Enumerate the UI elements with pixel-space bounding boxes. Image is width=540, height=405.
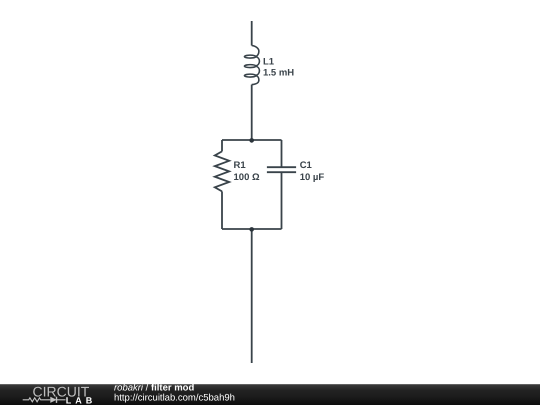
svg-text:1.5 mH: 1.5 mH xyxy=(263,68,294,79)
svg-text:http://circuitlab.com/c5bah9h: http://circuitlab.com/c5bah9h xyxy=(114,393,235,404)
svg-text:10 µF: 10 µF xyxy=(300,172,325,183)
svg-text:C1: C1 xyxy=(300,160,313,171)
svg-text:100 Ω: 100 Ω xyxy=(234,172,260,183)
svg-text:L1: L1 xyxy=(263,57,275,68)
svg-text:R1: R1 xyxy=(234,160,247,171)
svg-text:LAB: LAB xyxy=(66,395,97,405)
